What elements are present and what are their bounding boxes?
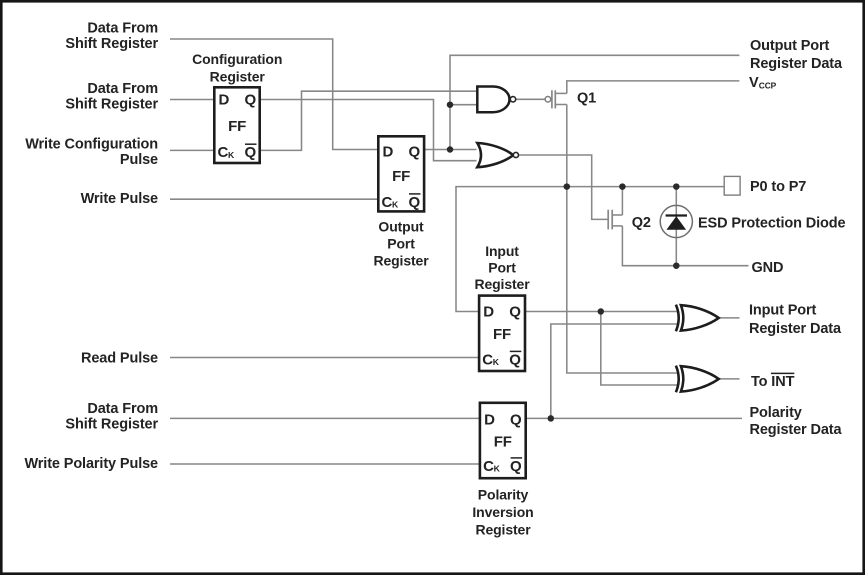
svg-text:Write Polarity Pulse: Write Polarity Pulse bbox=[24, 456, 158, 472]
svg-text:V: V bbox=[749, 75, 759, 91]
svg-text:FF: FF bbox=[392, 168, 410, 185]
svg-text:K: K bbox=[493, 357, 500, 367]
svg-text:Q: Q bbox=[510, 458, 522, 475]
svg-text:Q2: Q2 bbox=[632, 215, 651, 231]
svg-text:Write Pulse: Write Pulse bbox=[81, 191, 158, 207]
svg-text:Port: Port bbox=[488, 259, 516, 275]
svg-text:Write Configuration: Write Configuration bbox=[25, 136, 158, 152]
svg-text:FF: FF bbox=[493, 326, 511, 343]
svg-text:Data From: Data From bbox=[87, 401, 158, 417]
svg-text:P0 to P7: P0 to P7 bbox=[750, 179, 806, 195]
svg-text:Q: Q bbox=[408, 194, 420, 211]
svg-text:Data From: Data From bbox=[87, 81, 158, 97]
svg-text:Register: Register bbox=[474, 276, 530, 292]
svg-text:Q: Q bbox=[244, 144, 256, 161]
svg-text:Shift Register: Shift Register bbox=[65, 96, 158, 112]
svg-text:FF: FF bbox=[228, 118, 246, 135]
svg-text:Input: Input bbox=[485, 243, 519, 259]
svg-text:Register: Register bbox=[475, 522, 531, 538]
svg-text:K: K bbox=[494, 464, 501, 474]
svg-text:Polarity: Polarity bbox=[750, 405, 802, 421]
svg-text:D: D bbox=[383, 143, 394, 160]
svg-text:Shift Register: Shift Register bbox=[65, 36, 158, 52]
svg-text:Register Data: Register Data bbox=[750, 422, 843, 438]
svg-text:D: D bbox=[219, 92, 230, 109]
svg-text:Read Pulse: Read Pulse bbox=[81, 351, 158, 367]
svg-text:GND: GND bbox=[752, 260, 784, 276]
svg-text:Polarity: Polarity bbox=[478, 487, 529, 503]
svg-text:C: C bbox=[218, 144, 229, 161]
svg-text:Register: Register bbox=[210, 69, 266, 85]
svg-text:Input Port: Input Port bbox=[749, 303, 817, 319]
svg-text:Q: Q bbox=[408, 143, 420, 160]
svg-text:Inversion: Inversion bbox=[472, 504, 533, 520]
svg-text:Register: Register bbox=[373, 252, 429, 268]
svg-text:Q1: Q1 bbox=[577, 91, 596, 107]
svg-text:Output Port: Output Port bbox=[750, 38, 830, 54]
svg-text:Data From: Data From bbox=[87, 20, 158, 36]
svg-text:Port: Port bbox=[387, 235, 415, 251]
svg-text:D: D bbox=[484, 412, 495, 429]
svg-text:C: C bbox=[482, 351, 493, 368]
svg-text:Pulse: Pulse bbox=[120, 152, 158, 168]
svg-text:C: C bbox=[483, 458, 494, 475]
svg-text:C: C bbox=[382, 194, 393, 211]
svg-text:Configuration: Configuration bbox=[192, 51, 282, 67]
svg-text:K: K bbox=[228, 150, 235, 160]
svg-text:K: K bbox=[392, 200, 399, 210]
svg-text:Q: Q bbox=[244, 92, 256, 109]
svg-text:Q: Q bbox=[509, 304, 521, 321]
svg-text:FF: FF bbox=[494, 433, 512, 450]
svg-text:To INT: To INT bbox=[751, 374, 795, 390]
svg-text:D: D bbox=[483, 304, 494, 321]
svg-text:Q: Q bbox=[509, 351, 521, 368]
svg-text:Register Data: Register Data bbox=[749, 321, 842, 337]
svg-text:CCP: CCP bbox=[759, 81, 777, 91]
svg-text:Q: Q bbox=[510, 412, 522, 429]
svg-text:Shift Register: Shift Register bbox=[65, 416, 158, 432]
svg-text:ESD Protection Diode: ESD Protection Diode bbox=[698, 215, 846, 231]
svg-text:Output: Output bbox=[378, 218, 424, 234]
svg-text:Register Data: Register Data bbox=[750, 56, 843, 72]
